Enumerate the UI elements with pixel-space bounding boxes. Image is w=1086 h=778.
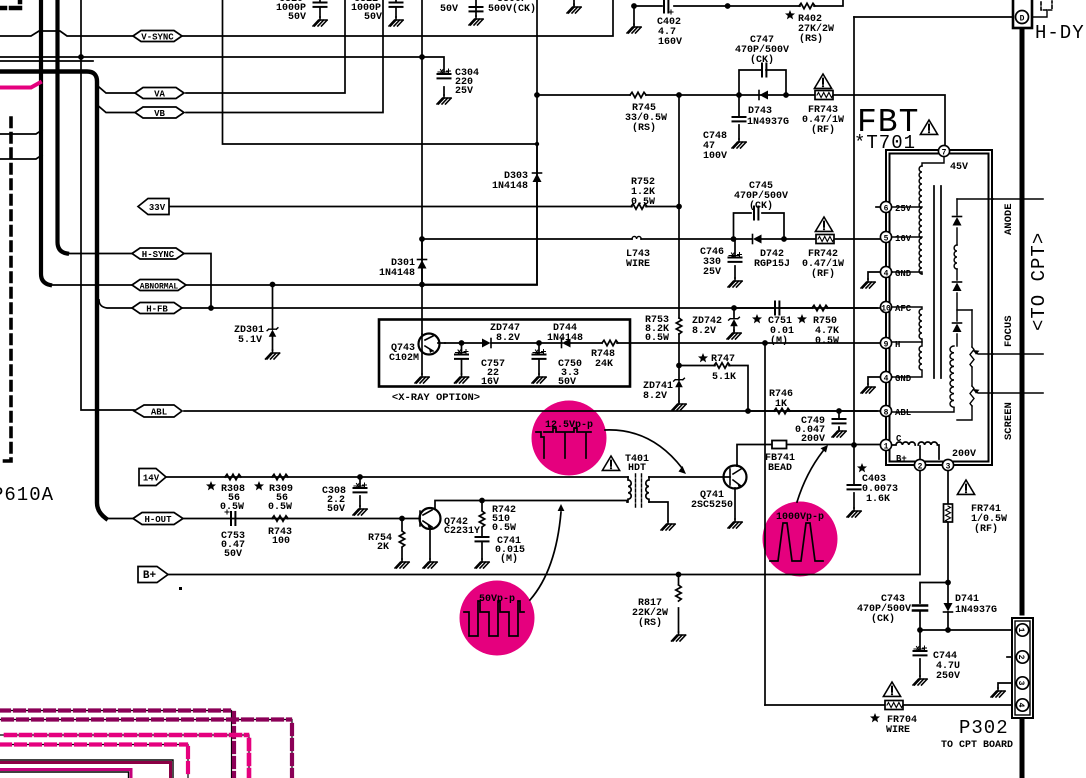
svg-text:9: 9 <box>884 341 889 350</box>
ground C748 <box>732 139 746 148</box>
FBT anode out <box>957 198 993 200</box>
FBT focus pot <box>957 310 974 420</box>
svg-text:0.5W: 0.5W <box>220 502 244 513</box>
wire C403 stub <box>853 445 855 508</box>
svg-text:45V: 45V <box>950 162 968 173</box>
wire C746 stub <box>734 239 736 278</box>
bottom-left cable bundle row3 <box>0 735 249 778</box>
wire cap stub C310 <box>319 0 321 17</box>
wire cap stub x476 <box>475 0 477 16</box>
wire P302 pin1 row <box>920 629 1013 631</box>
wire H-FB row <box>99 300 877 308</box>
wire C402 R402 rail <box>634 0 843 6</box>
FBT pin1 circle <box>880 439 891 451</box>
fusible resistor FR743 <box>815 91 833 100</box>
labels X-RAY area <box>389 323 615 404</box>
FBT pin8 circle <box>880 405 891 417</box>
wire C745 bypass <box>734 213 785 239</box>
ground C403 <box>847 508 861 517</box>
wire D303 segment <box>536 144 538 285</box>
wire ZD742 stub <box>733 308 735 331</box>
wire C744 stub <box>919 630 921 676</box>
svg-text:0.5W: 0.5W <box>268 502 292 513</box>
fusible resistor FR742 <box>816 235 834 244</box>
resistor R746 <box>774 408 790 413</box>
labels FBT <box>854 104 976 464</box>
wire V-SYNC to top exit <box>182 0 613 36</box>
svg-text:H-DY: H-DY <box>1035 22 1085 44</box>
resistor R745 <box>630 92 646 97</box>
tag VA <box>135 88 184 100</box>
svg-text:B+: B+ <box>896 454 907 464</box>
vertical x679 <box>678 95 680 402</box>
wire C757 <box>461 343 463 374</box>
svg-text:4: 4 <box>1016 703 1025 708</box>
svg-text:16V: 16V <box>481 377 499 388</box>
node ABL R747 <box>745 408 751 414</box>
wire D301 segment <box>421 239 423 285</box>
H-DY connector <box>1013 0 1032 28</box>
FBT H coil <box>892 342 922 377</box>
svg-text:P302: P302 <box>959 717 1009 739</box>
svg-text:16V: 16V <box>895 234 912 244</box>
node R742 <box>479 498 485 504</box>
FBT pin4b ground <box>868 377 892 384</box>
svg-text:4: 4 <box>884 270 889 279</box>
capacitor C748 <box>733 117 746 121</box>
wire P302 pin2 stub <box>1007 656 1013 658</box>
svg-text:25V: 25V <box>455 86 473 97</box>
node B/y95 <box>534 92 540 98</box>
labels R753 ZD742 C751 R750 R747 ZD741 R746 C749 <box>643 315 839 445</box>
capacitor C745 <box>754 207 758 220</box>
labels C747 D743 FR743 C748 R745 <box>625 35 844 162</box>
FBT bottom coil B+ <box>892 442 939 459</box>
svg-text:1N4937G: 1N4937G <box>747 117 789 128</box>
svg-text:8: 8 <box>884 409 889 418</box>
svg-text:(RF): (RF) <box>811 268 835 280</box>
svg-text:2: 2 <box>1016 655 1025 660</box>
wire V-SYNC left entry <box>0 31 133 36</box>
thin vertical x81 <box>81 0 134 410</box>
svg-text:D741: D741 <box>955 594 979 605</box>
node C743 top <box>945 580 951 586</box>
ground ZD741 <box>672 401 686 410</box>
ground C311 <box>389 17 403 26</box>
svg-text:(RF): (RF) <box>811 124 835 136</box>
ground x476 <box>469 16 483 25</box>
svg-text:50V: 50V <box>558 377 576 388</box>
node 16V A <box>419 236 425 242</box>
svg-text:14V: 14V <box>143 474 160 484</box>
node R747 <box>676 363 682 369</box>
capacitor C743 <box>913 606 927 611</box>
FBT tap 25V <box>892 206 922 208</box>
wire y134 into bus1 <box>0 130 42 134</box>
wire Q742 collector row <box>435 501 627 510</box>
ground C741 <box>475 559 489 568</box>
svg-text:33V: 33V <box>149 203 166 213</box>
capacitor C402 <box>664 0 673 14</box>
svg-text:BEAD: BEAD <box>768 463 792 474</box>
wire VB row <box>186 0 383 113</box>
svg-text:160V: 160V <box>658 37 682 48</box>
node C745 left <box>731 236 737 242</box>
svg-text:(RS): (RS) <box>638 617 662 629</box>
wire y159 into bus1 <box>0 155 42 159</box>
svg-text:ABL: ABL <box>151 408 167 418</box>
resistor R754 vertical <box>399 531 404 547</box>
svg-text:SCREEN: SCREEN <box>1003 402 1015 440</box>
tag VB <box>135 107 184 119</box>
svg-text:25V: 25V <box>703 267 721 278</box>
svg-text:R747: R747 <box>711 354 735 365</box>
svg-text:1K: 1K <box>775 399 787 410</box>
diode D743 <box>759 91 768 100</box>
svg-text:H-OUT: H-OUT <box>144 515 172 525</box>
FBT pin6 circle <box>880 201 891 213</box>
node C402 right <box>725 3 731 9</box>
labels L743 C745 C746 D742 FR742 <box>626 181 844 280</box>
transformer T401 <box>628 474 649 508</box>
ground C402 <box>627 24 641 33</box>
resistor R817 vertical <box>676 585 681 601</box>
wire R754 branch <box>401 519 403 560</box>
resistor R309 <box>272 474 288 479</box>
svg-text:AFC: AFC <box>895 304 912 314</box>
resistor R402 <box>799 3 815 8</box>
labels H-OUT row <box>220 484 525 565</box>
svg-text:1N4148: 1N4148 <box>492 181 528 192</box>
wire XRAY chain <box>445 342 630 344</box>
svg-text:50V: 50V <box>440 4 458 15</box>
labels C304 R752 D303 D301 ZD301 <box>234 68 655 346</box>
ground C746 <box>728 278 742 287</box>
svg-text:C2231Y: C2231Y <box>444 526 480 537</box>
warning FR741 <box>957 480 974 494</box>
svg-text:ABL: ABL <box>895 408 911 418</box>
capacitor C403 <box>848 485 861 489</box>
magenta wire <box>0 83 40 88</box>
capacitor C741 <box>476 537 489 541</box>
svg-text:GND: GND <box>895 374 912 384</box>
svg-text:ANODE: ANODE <box>1003 203 1015 235</box>
tag H-OUT <box>133 513 183 526</box>
FBT pin2 link <box>919 446 921 459</box>
node D741 bot <box>945 627 951 633</box>
svg-text:1N4148: 1N4148 <box>379 268 415 279</box>
ground Q743 <box>415 374 429 383</box>
labels right column <box>857 474 1007 736</box>
wire H-OUT row <box>106 518 420 520</box>
bottom-left solid cable outer <box>0 760 173 778</box>
labels right edge rotated <box>1003 22 1085 440</box>
node ABN A <box>419 282 425 288</box>
svg-text:WIRE: WIRE <box>886 725 910 736</box>
svg-text:C102M: C102M <box>389 353 419 364</box>
capacitor C310 <box>314 3 327 7</box>
svg-text:2SC5250: 2SC5250 <box>691 500 733 511</box>
capacitor C753 <box>225 510 235 525</box>
svg-text:H-SYNC: H-SYNC <box>142 250 175 260</box>
wire C753 gap fix <box>225 518 241 520</box>
star C751 <box>752 314 762 323</box>
node HSYNC HFB <box>208 305 214 311</box>
diode D742 <box>753 235 762 244</box>
svg-text:D743: D743 <box>748 106 772 117</box>
capacitor x476 <box>470 7 483 11</box>
wire y61 from left <box>0 60 93 62</box>
svg-text:1N4148: 1N4148 <box>547 333 583 344</box>
svg-text:B+: B+ <box>143 570 157 582</box>
FBT HV diode 1 <box>953 217 962 226</box>
resistor R752 <box>631 204 647 209</box>
wire C402 ground stub <box>633 6 635 25</box>
svg-text:(RS): (RS) <box>799 33 823 45</box>
wire H-DY top link <box>854 16 1012 18</box>
node C743 bot <box>917 627 923 633</box>
tag B+ <box>138 567 168 583</box>
svg-text:100: 100 <box>272 536 290 547</box>
wire 33V row <box>170 206 679 208</box>
FBT HV diode 2 <box>953 282 962 291</box>
ground ZD742 <box>727 330 741 339</box>
dashed rectangle left edge <box>0 118 11 461</box>
ferrite bead FB741 <box>772 441 787 449</box>
resistor R747 <box>714 363 730 368</box>
node 14V C308 <box>357 474 363 480</box>
ground Q742 <box>423 559 437 568</box>
FBT pin4 ground <box>868 272 892 279</box>
svg-text:100V: 100V <box>703 151 727 162</box>
anode line to CPT <box>993 198 1043 200</box>
ground P302 pin3 <box>991 688 1005 697</box>
node ZD742 <box>731 305 737 311</box>
svg-text:(RF): (RF) <box>974 523 998 535</box>
node C745 right <box>781 236 787 242</box>
svg-text:24K: 24K <box>595 359 613 370</box>
svg-text:(CK): (CK) <box>750 54 774 66</box>
svg-text:50V: 50V <box>364 12 382 23</box>
screen line to CPT <box>993 392 1043 394</box>
svg-text:8.2V: 8.2V <box>692 326 716 337</box>
bottom-left cable bundle row1 <box>0 711 234 778</box>
vertical x854 H-DY <box>853 17 855 445</box>
tag V-SYNC <box>133 31 182 43</box>
svg-text:0.5W: 0.5W <box>492 523 516 534</box>
svg-text:6: 6 <box>884 205 889 214</box>
svg-text:H: H <box>895 340 900 350</box>
bus 1 thick vertical <box>41 0 50 285</box>
node x679/y95 <box>676 92 682 98</box>
wire VA left stub <box>99 87 135 93</box>
svg-text:5: 5 <box>884 235 889 244</box>
transistor Q741 <box>724 465 747 489</box>
ground C750 <box>532 374 546 383</box>
ground C749 <box>832 428 846 437</box>
node H x765 <box>762 340 768 346</box>
FBT pin10 circle <box>880 301 891 313</box>
svg-text:FOCUS: FOCUS <box>1003 315 1015 347</box>
svg-text:*T701: *T701 <box>854 132 916 154</box>
ground Q741 <box>728 519 742 528</box>
wire C304 branch <box>422 57 444 95</box>
svg-text:V-SYNC: V-SYNC <box>141 33 174 43</box>
svg-text:WIRE: WIRE <box>626 259 650 270</box>
wire C750 <box>538 343 540 374</box>
node HOUT R754 <box>399 516 405 522</box>
svg-text:P610A: P610A <box>0 484 54 506</box>
node C747 left <box>736 92 742 98</box>
svg-text:(CK): (CK) <box>871 613 895 625</box>
svg-text:25V: 25V <box>895 204 912 214</box>
svg-text:1: 1 <box>884 443 889 452</box>
wire 16V row <box>422 238 881 240</box>
ground R754 <box>395 559 409 568</box>
zener ZD301 <box>267 328 278 337</box>
wire C748 stub <box>738 95 740 139</box>
svg-text:C: C <box>896 434 902 444</box>
svg-text:VA: VA <box>154 90 165 100</box>
node C402 gnd <box>631 3 637 9</box>
wire cap stub C311 <box>395 0 397 17</box>
svg-text:(RS): (RS) <box>632 122 656 134</box>
bottom-left cable bundle row2 <box>0 720 292 778</box>
FBT pin4 circle <box>880 266 891 278</box>
node B/y144 <box>535 142 539 146</box>
capacitor C311 <box>390 3 403 7</box>
wire R747 branch <box>679 366 748 412</box>
svg-text:10: 10 <box>881 305 891 314</box>
svg-text:D: D <box>1020 15 1025 24</box>
svg-text:VB: VB <box>154 109 165 119</box>
resistor R753 vertical <box>676 318 681 334</box>
wire H row pin9 <box>630 342 881 344</box>
wire P302 pin4 row FR704 <box>765 704 1013 706</box>
H-DY dashed plug <box>1041 1 1052 10</box>
resistor R743 <box>272 516 288 521</box>
star R309 <box>254 481 264 490</box>
ground C757 <box>455 374 469 383</box>
star R747 <box>698 353 708 362</box>
arrow from 50Vp-p to Q742 collector line <box>530 512 561 600</box>
svg-text:0.5W: 0.5W <box>631 197 655 208</box>
resistor R742 vertical <box>479 511 484 527</box>
wire R745 row <box>537 95 945 145</box>
capacitor C746 <box>729 253 742 262</box>
labels P302 <box>941 717 1013 751</box>
diode D741 <box>944 603 953 612</box>
svg-text:3: 3 <box>946 463 951 472</box>
svg-text:(M): (M) <box>500 553 518 565</box>
FBT pin5 circle <box>880 231 891 243</box>
ground C308 <box>353 506 367 515</box>
svg-text:(M): (M) <box>770 335 788 347</box>
svg-text:1.6K: 1.6K <box>866 494 890 505</box>
wire 14V row <box>166 476 628 478</box>
wire y144 horizontal <box>223 0 538 144</box>
wire ABL row <box>184 410 877 412</box>
bus 3 thick L-shape <box>0 72 106 519</box>
ground C310 <box>313 17 327 26</box>
svg-text:5.1K: 5.1K <box>712 372 736 383</box>
svg-text:0.5W: 0.5W <box>645 333 669 344</box>
diode D301 <box>418 260 427 269</box>
ground x574 <box>567 4 581 13</box>
vertical A x422 <box>421 0 423 334</box>
tag ABNORMAL <box>132 280 186 292</box>
vertical B x537 <box>422 0 537 285</box>
tag 33V <box>138 199 169 215</box>
ground T401 <box>661 521 675 530</box>
tag H-FB <box>132 303 182 315</box>
capacitor C304 <box>438 69 451 78</box>
wire y57 from left <box>0 56 422 58</box>
FBT box T701 <box>886 150 992 465</box>
arrow from 12.5Vp-p to T401 <box>605 430 682 468</box>
wire Q742 base emitter <box>420 519 430 560</box>
svg-text:5.1V: 5.1V <box>238 335 262 346</box>
svg-text:1000Vp-p: 1000Vp-p <box>776 512 824 523</box>
wire FB741 row to pin1 <box>737 445 881 467</box>
FBT pin3 circle <box>942 459 953 471</box>
ground C304 <box>437 95 451 104</box>
tag 14V <box>139 469 166 486</box>
wire cap stub x574 <box>573 0 575 5</box>
wire R742 C741 branch <box>481 501 483 560</box>
node C403 <box>851 442 857 448</box>
svg-text:2: 2 <box>918 463 923 472</box>
svg-text:1: 1 <box>1016 628 1025 633</box>
warning FR704 <box>883 682 900 696</box>
svg-text:4: 4 <box>884 375 889 384</box>
node B+ R817 <box>676 572 682 578</box>
wire Q741 emitter <box>734 488 736 519</box>
node x81/y57 <box>78 54 84 60</box>
tag H-SYNC <box>132 248 184 260</box>
transistor Q742 <box>420 508 441 530</box>
zener ZD741 <box>674 378 685 387</box>
diode D303 <box>533 173 542 182</box>
star R402 <box>785 10 795 19</box>
capacitor C744 <box>914 646 927 655</box>
FBT pin4b circle <box>880 371 891 383</box>
svg-text:0.5W: 0.5W <box>815 336 839 347</box>
node ZD301 <box>270 282 276 288</box>
svg-text:<TO CPT>: <TO CPT> <box>1028 232 1050 331</box>
vertical x765 pin9 to P302 <box>764 343 766 705</box>
wire AFC segment C751 R750 <box>734 307 881 309</box>
FBT pin6 stub <box>876 206 880 208</box>
svg-text:500V(CK): 500V(CK) <box>488 3 536 15</box>
waveform callout 12.5Vp-p <box>532 401 607 476</box>
transistor Q743 <box>419 334 446 375</box>
svg-text:1N4937G: 1N4937G <box>955 605 997 616</box>
wire P302 pin3 gnd <box>998 683 1013 688</box>
star FR704 <box>870 713 880 722</box>
fusible resistor FR704 <box>885 701 903 710</box>
svg-text:2K: 2K <box>377 542 389 553</box>
svg-text:TO CPT BOARD: TO CPT BOARD <box>941 740 1013 751</box>
FBT HV rectifier chain <box>892 199 957 412</box>
labels T401 Q741 FB741 R817 <box>625 453 795 629</box>
wire C743 branch <box>920 583 948 631</box>
svg-text:50Vp-p: 50Vp-p <box>479 594 515 605</box>
FBT pin9 circle <box>880 337 891 349</box>
bottom-left solid cable inner <box>0 770 131 778</box>
wire C308 branch <box>359 477 361 506</box>
svg-text:3: 3 <box>1016 681 1025 686</box>
